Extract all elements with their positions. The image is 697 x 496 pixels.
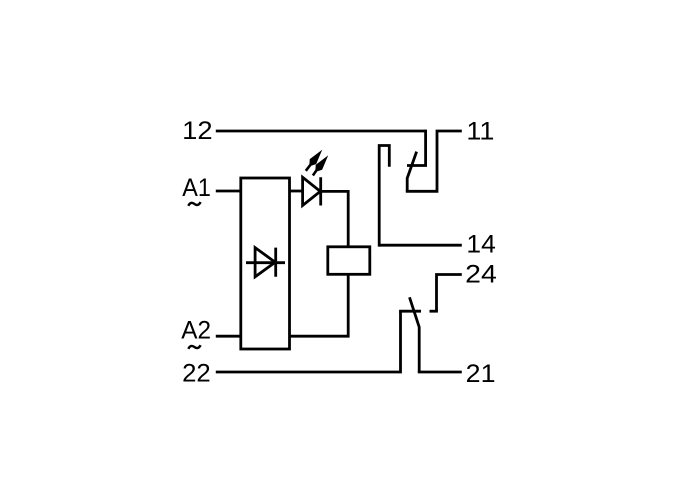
contact K2 movable arm (common 21) xyxy=(410,297,420,372)
wire 21 (contact to label 21) xyxy=(418,371,462,374)
contact K1 NO fixed terminal (hook from 14) xyxy=(379,146,389,247)
relay coil K1 xyxy=(328,247,370,274)
wire coil bottom to rectifier box (A2 side) xyxy=(290,274,349,336)
wire 22 (label 22 to contact bar) xyxy=(216,311,401,372)
contact K2 NO fixed foot (from 24) xyxy=(430,310,438,313)
AC tilde under A2 xyxy=(188,345,200,349)
wire rectifier to LED anode xyxy=(290,190,303,193)
svg-text:22: 22 xyxy=(182,360,211,388)
wire 11 common (bottom run, up, and out to label 11) xyxy=(406,131,462,191)
svg-text:24: 24 xyxy=(465,260,497,288)
svg-text:A1: A1 xyxy=(182,174,211,202)
rectifier box xyxy=(241,178,290,349)
contact K2 NC fixed bar (from 22) xyxy=(399,310,421,313)
wire 14 (horizontal out to label 14) xyxy=(379,244,462,247)
LED light arrow 1 xyxy=(306,151,321,171)
svg-text:21: 21 xyxy=(466,360,496,388)
LED light arrow 2 xyxy=(313,157,327,176)
svg-text:12: 12 xyxy=(182,117,212,145)
AC tilde under A1 xyxy=(188,202,200,206)
contact K1 movable arm (common 11) xyxy=(407,152,416,192)
diode inside rectifier box xyxy=(246,248,285,277)
svg-text:A2: A2 xyxy=(181,316,211,344)
wire 12 (horizontal from label 12 to contact) xyxy=(216,130,426,133)
svg-text:11: 11 xyxy=(466,118,494,146)
LED D1 xyxy=(303,177,321,205)
svg-text:14: 14 xyxy=(466,231,495,259)
wire 24 (label 24 down to contact) xyxy=(437,275,462,312)
wire A1 (label A1 to rectifier box) xyxy=(216,190,241,193)
wire A2 (label A2 to rectifier box) xyxy=(216,335,241,338)
wire LED cathode to relay coil xyxy=(321,191,349,246)
contact K1 NC fixed terminal (from 12: vertical drop and bar) xyxy=(407,130,427,166)
